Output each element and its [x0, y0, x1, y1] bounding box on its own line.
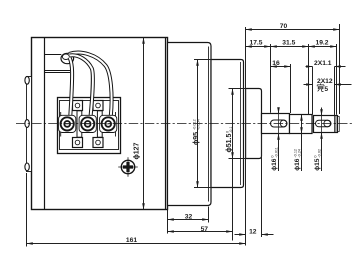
ext groove B / keyway2 right	[334, 67, 336, 116]
rear cover strip	[27, 77, 32, 172]
rear bump middle	[25, 120, 29, 128]
keyway 1	[271, 120, 288, 127]
terminal 3	[102, 117, 115, 130]
link square bottom-right	[93, 138, 103, 148]
terminal pad 3	[100, 115, 117, 132]
dim phi16 second	[301, 115, 303, 134]
wire 3	[69, 53, 112, 116]
dim 12	[235, 234, 246, 236]
rear bump bottom	[25, 163, 29, 171]
link bar right	[97, 111, 102, 137]
shaft section 1	[262, 114, 290, 134]
ext 19.2 right	[336, 44, 338, 115]
svg-text:-0.011: -0.011	[275, 147, 279, 157]
svg-text:70: 70	[280, 23, 288, 30]
dim phi127	[143, 38, 145, 210]
link square top-right	[93, 101, 103, 111]
front housing	[168, 43, 212, 206]
terminal box outer	[58, 98, 121, 154]
terminal 2	[81, 117, 94, 130]
joint line pair	[45, 70, 71, 72]
groove B	[333, 116, 335, 133]
dim 161	[27, 243, 246, 245]
ext line long boss/face	[245, 27, 247, 246]
shaft section 2	[290, 115, 313, 134]
svg-text:12: 12	[249, 228, 257, 235]
dim 57	[168, 231, 233, 233]
dim phi16 first	[278, 110, 280, 114]
spigot	[211, 60, 244, 188]
svg-text:2X1.1: 2X1.1	[314, 60, 332, 67]
label phi51.5	[225, 126, 233, 152]
body right joint line	[165, 38, 167, 210]
bearing boss	[246, 89, 262, 159]
terminal box inner	[60, 101, 119, 150]
screw target symbol	[118, 157, 138, 177]
dim phi95	[197, 60, 199, 188]
dim 16	[271, 66, 291, 68]
svg-text:ϕ95: ϕ95	[193, 132, 200, 145]
dim chain 19.2	[309, 46, 337, 48]
svg-text:19.2: 19.2	[315, 40, 328, 47]
dim chain 17.5	[246, 46, 271, 48]
svg-text:161: 161	[126, 237, 137, 244]
wire 1	[70, 58, 73, 117]
ext groove A	[312, 67, 314, 115]
keyway 2	[316, 120, 332, 127]
terminal pad 1	[59, 115, 76, 132]
rear bump top	[25, 76, 29, 84]
link square bottom-left	[73, 138, 83, 148]
link square top-left	[73, 101, 83, 111]
dim phi51.5	[232, 89, 234, 159]
svg-text:-0.24: -0.24	[298, 149, 302, 158]
dim 70	[246, 29, 340, 31]
svg-text:ϕ16: ϕ16	[294, 158, 301, 171]
dim phi15	[321, 108, 323, 116]
partition line left	[60, 112, 62, 137]
svg-text:31.5: 31.5	[282, 40, 295, 47]
label phi15	[314, 149, 322, 171]
label phi95	[193, 119, 201, 145]
ext 31.5/19.2	[308, 44, 310, 115]
dim chain 31.5	[271, 46, 309, 48]
dim 2X1.1 arrows	[306, 66, 313, 68]
link bar left	[77, 111, 82, 137]
dim 32	[168, 219, 209, 221]
svg-text:-0.054: -0.054	[197, 119, 201, 130]
terminal pad 2	[79, 115, 96, 132]
groove A	[313, 116, 315, 133]
label phi16 first	[271, 147, 279, 171]
svg-text:-0.02: -0.02	[318, 149, 322, 158]
svg-text:ϕ51.5: ϕ51.5	[226, 134, 233, 153]
terminal 1	[61, 117, 74, 130]
svg-text:5: 5	[324, 86, 328, 93]
joint line upper	[45, 54, 62, 56]
svg-text:ϕ15: ϕ15	[314, 158, 321, 171]
ext 16 right	[290, 64, 292, 113]
svg-text:2X12: 2X12	[317, 78, 333, 85]
svg-text:-0.1: -0.1	[229, 126, 233, 133]
shaft end chamfer	[338, 117, 340, 132]
front housing chamfer line	[208, 47, 210, 202]
ext 70 right	[339, 24, 341, 114]
svg-text:16: 16	[272, 60, 280, 67]
label phi16 second	[294, 149, 302, 171]
svg-text:17.5: 17.5	[249, 40, 262, 47]
rear endbell joint line	[44, 38, 46, 210]
spigot chamfer line	[240, 62, 242, 185]
shaft section 3	[314, 116, 338, 133]
dim 2X12 arrows	[304, 84, 313, 86]
grommet	[61, 53, 74, 63]
svg-text:32: 32	[185, 214, 193, 221]
glyph kuan	[317, 83, 324, 91]
centerline	[16, 123, 353, 125]
svg-text:57: 57	[201, 226, 209, 233]
wire 2	[70, 55, 93, 116]
motor body	[32, 38, 168, 210]
svg-text:ϕ127: ϕ127	[134, 142, 141, 159]
ext keyway1 start	[270, 44, 272, 113]
svg-text:ϕ16: ϕ16	[271, 158, 278, 171]
partition line right	[115, 112, 117, 137]
